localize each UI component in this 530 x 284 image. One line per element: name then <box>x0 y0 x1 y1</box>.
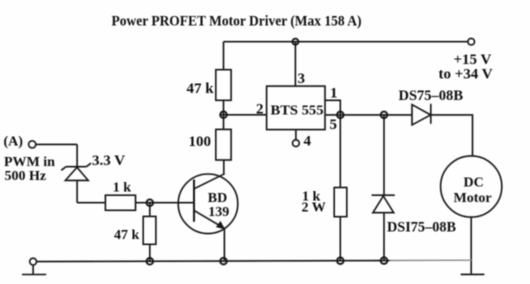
svg-text:PWM in: PWM in <box>4 155 55 170</box>
svg-text:139: 139 <box>208 205 229 220</box>
svg-text:2 W: 2 W <box>302 200 326 215</box>
svg-text:5: 5 <box>330 117 338 133</box>
svg-text:47 k: 47 k <box>187 81 215 97</box>
svg-text:47 k: 47 k <box>114 228 140 243</box>
svg-text:DS75–08B: DS75–08B <box>399 88 464 104</box>
svg-text:3.3 V: 3.3 V <box>92 153 125 169</box>
svg-text:Motor: Motor <box>454 191 492 206</box>
svg-text:to +34 V: to +34 V <box>439 66 493 82</box>
svg-text:1: 1 <box>330 86 338 102</box>
svg-text:3: 3 <box>298 71 306 87</box>
svg-text:2: 2 <box>256 101 264 117</box>
svg-text:DC: DC <box>464 175 484 190</box>
svg-text:Power PROFET Motor Driver (Max: Power PROFET Motor Driver (Max 158 A) <box>112 14 362 30</box>
svg-text:BTS 555: BTS 555 <box>271 104 324 119</box>
svg-text:DSI75–08B: DSI75–08B <box>387 220 456 236</box>
svg-text:4: 4 <box>304 133 312 149</box>
svg-text:BD: BD <box>208 191 227 206</box>
svg-text:100: 100 <box>189 134 212 150</box>
svg-text:(A): (A) <box>4 135 24 150</box>
svg-text:500 Hz: 500 Hz <box>5 169 47 184</box>
svg-text:1 k: 1 k <box>113 180 132 195</box>
